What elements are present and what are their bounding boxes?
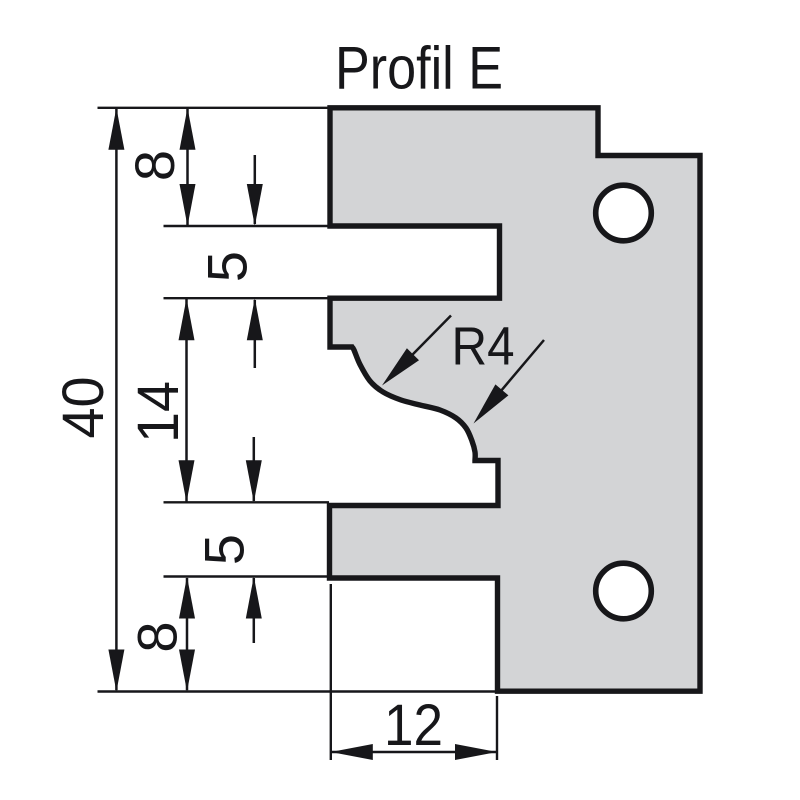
dimension 5 bottom text: [193, 534, 256, 565]
leader arrow R4 upper: [382, 316, 451, 386]
svg-text:14: 14: [126, 381, 191, 443]
extension line top (y=108): [98, 107, 331, 109]
svg-text:12: 12: [384, 693, 443, 758]
dimension 5 top text: [196, 251, 259, 282]
dimension 40 line: [108, 108, 124, 692]
svg-text:Profil E: Profil E: [335, 35, 503, 102]
extension line notch right (x=497): [496, 696, 498, 760]
dimension 8 bottom line: [179, 577, 195, 692]
dimension 12 text: [384, 693, 443, 758]
svg-text:5: 5: [196, 251, 259, 282]
dimension 40 text: [51, 377, 116, 439]
dimension 12 line: [331, 744, 497, 760]
extension line notch left (x=331): [330, 584, 332, 760]
dimension 5 top lines: [247, 155, 263, 368]
leader arrow R4 lower: [474, 340, 545, 424]
profile body (cutter plate outline with ogee groove): [330, 108, 701, 691]
title Profil E: [335, 35, 503, 102]
radius label R4: [452, 317, 515, 377]
dimension 14 text: [126, 381, 191, 443]
mounting hole bottom: [596, 563, 652, 619]
dimension 8 bottom text: [126, 621, 189, 652]
extension line bar bottom (y=577): [164, 575, 330, 577]
svg-text:5: 5: [193, 534, 256, 565]
dimension 14 line: [179, 298, 195, 502]
dimension 5 bottom lines: [246, 437, 262, 643]
svg-text:8: 8: [126, 621, 189, 652]
extension line bar top (y=502): [164, 501, 330, 503]
extension line slot1 bottom (y=298): [164, 297, 331, 299]
extension line bottom (y=691): [98, 690, 498, 692]
svg-text:8: 8: [123, 150, 186, 181]
svg-text:40: 40: [51, 377, 116, 439]
svg-text:R4: R4: [452, 317, 515, 377]
mounting hole top: [596, 185, 652, 241]
dimension 8 top text: [123, 150, 186, 181]
extension line slot1 top (y=226): [164, 225, 331, 227]
dimension 8 top line: [180, 108, 196, 226]
